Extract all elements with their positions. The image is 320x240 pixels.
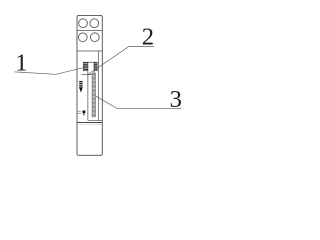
leader line 2	[88, 47, 154, 75]
divider line between circle rows	[77, 30, 102, 32]
ledge line left of strip	[82, 74, 88, 76]
white sample window box	[88, 62, 94, 74]
svg-text:2: 2	[142, 23, 154, 50]
section divider double line	[77, 122, 102, 124]
divider line below circles section	[77, 50, 102, 52]
svg-text:1: 1	[15, 49, 27, 76]
strip channel left wall	[87, 75, 89, 121]
left hatched pad block	[83, 62, 88, 71]
svg-text:3: 3	[170, 86, 182, 113]
tiny black flag mark	[82, 110, 85, 115]
leader line 3	[95, 96, 181, 109]
leader line 1	[14, 67, 84, 74]
circle second-row-left	[78, 33, 87, 42]
flow direction arrow: solid head	[79, 87, 83, 92]
circle second-row-right	[90, 33, 99, 42]
circle top-right	[90, 19, 99, 28]
right inner vertical wall	[98, 51, 100, 121]
device body outline	[77, 15, 102, 155]
channel bottom line	[88, 119, 102, 121]
tiny annotation text marks	[78, 110, 81, 112]
right hatched pad block	[94, 62, 97, 71]
graduated scale strip (ladder)	[92, 73, 95, 117]
circle top-left	[79, 19, 88, 28]
tiny annotation underline	[78, 112, 82, 114]
flow direction arrow: three bars	[79, 81, 82, 82]
